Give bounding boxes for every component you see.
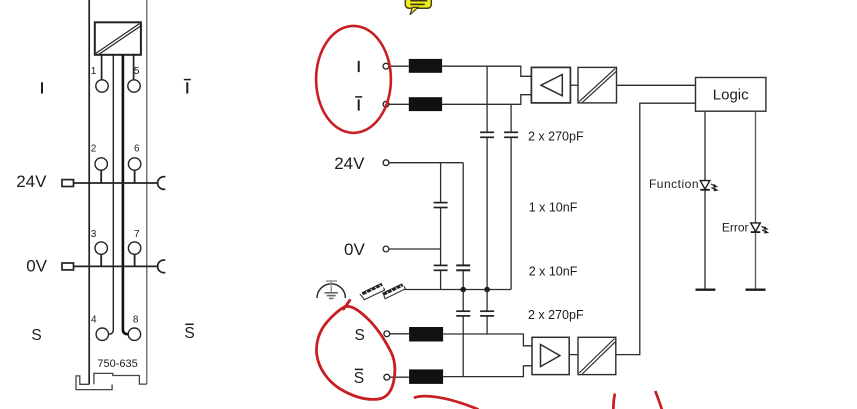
wire: terminal I-bar to filter	[389, 103, 409, 105]
wire: C4 to earth rail	[440, 270, 442, 289]
wire: internal bus thin (head to pin 4)	[109, 55, 114, 334]
terminal 24V field clamp (square)	[62, 180, 74, 187]
module foot left hook	[76, 376, 112, 390]
pin 3	[95, 242, 107, 266]
terminator bar under error LED	[746, 289, 766, 291]
terminal 0V field clamp (square)	[62, 263, 74, 270]
capacitor C1 plates	[480, 132, 494, 137]
svg-text:2 x 10nF: 2 x 10nF	[529, 265, 578, 279]
annotation: yellow speech bubble	[405, 0, 431, 15]
junction on earth rail (x=487)	[484, 287, 490, 293]
logic block U1	[696, 78, 766, 112]
wire: C7 down to S line	[486, 316, 488, 334]
svg-text:8: 8	[133, 314, 139, 325]
earth symbol	[317, 280, 345, 298]
svg-text:5: 5	[134, 66, 140, 77]
svg-text:S: S	[31, 327, 41, 344]
svg-text:S: S	[355, 327, 365, 344]
galvanic isolator (output channel)	[578, 337, 616, 374]
capacitor C2 270pF (I-bar to rail) top segment	[510, 104, 512, 132]
label S-bar (module right)	[184, 324, 194, 342]
annotation: red stroke bottom right B	[655, 391, 662, 409]
svg-text:Error: Error	[722, 220, 749, 234]
label I (module left)	[41, 82, 43, 93]
wire: module left border	[88, 0, 90, 384]
pin 5	[128, 80, 140, 92]
terminal 0V cage clamp (arc)	[158, 260, 166, 273]
wire: C2 to earth rail	[510, 137, 512, 289]
filter choke on I (black box)	[409, 59, 442, 73]
svg-text:2 x 270pF: 2 x 270pF	[528, 129, 584, 143]
pin 8	[128, 328, 140, 340]
isolator block (module head)	[95, 22, 141, 55]
svg-text:2 x 270pF: 2 x 270pF	[528, 308, 584, 322]
terminal 24V cage clamp (arc)	[158, 177, 166, 190]
terminal I (open circle)	[383, 63, 389, 69]
wire: I line to receiver	[442, 66, 531, 76]
terminal S	[384, 331, 390, 337]
label I-bar (module right)	[184, 80, 191, 94]
capacitor C1 270pF (I to rail) top segment	[486, 66, 488, 132]
capacitor C7 270pF plates (rail to S)	[480, 311, 494, 316]
terminal 24V	[383, 160, 389, 166]
svg-text:S: S	[354, 370, 364, 387]
svg-text:S: S	[184, 325, 194, 342]
svg-text:6: 6	[134, 143, 140, 154]
DIN rail symbol	[360, 283, 406, 300]
svg-text:4: 4	[91, 314, 97, 325]
capacitor C2 plates	[504, 132, 518, 137]
wire: terminal S-bar to filter	[390, 376, 409, 378]
LED Error	[751, 223, 768, 233]
wire: terminal S to filter	[390, 333, 409, 335]
svg-text:Logic: Logic	[713, 87, 749, 104]
annotation: red loop around S / S-bar	[316, 299, 394, 399]
wire: I-bar line to receiver	[442, 95, 531, 105]
node S-bar label	[354, 369, 364, 387]
wire: C6 down to S-bar line	[462, 316, 464, 377]
annotation: red ellipse around I / I-bar	[316, 26, 391, 133]
wire: 0V terminal to node	[389, 248, 441, 250]
wire: pin1 stem from head	[101, 55, 103, 80]
svg-text:1: 1	[91, 66, 97, 77]
filter choke on S (black box)	[409, 327, 443, 342]
svg-text:7: 7	[134, 229, 140, 240]
wire: C5 to earth rail	[462, 270, 464, 289]
terminal I-bar	[383, 101, 389, 107]
galvanic isolator (input channel)	[578, 67, 617, 103]
wire: driver to isolator	[569, 354, 578, 356]
terminator bar under function LED	[696, 289, 716, 291]
svg-text:24V: 24V	[334, 154, 365, 173]
wire: C1 to earth rail	[486, 137, 488, 289]
svg-text:1 x 10nF: 1 x 10nF	[529, 201, 578, 215]
svg-text:24V: 24V	[16, 172, 47, 191]
wire: module right border	[146, 0, 148, 384]
junction on earth rail (x=463)	[460, 287, 466, 293]
capacitor C5 10nF plates (24V to rail)	[456, 265, 470, 270]
filter choke on S-bar (black box)	[409, 369, 443, 384]
LED Function	[700, 181, 717, 191]
pin 6	[128, 158, 140, 183]
terminal 0V	[383, 246, 389, 252]
filter choke on I-bar (black box)	[409, 97, 442, 111]
wire: logic to function LED	[704, 111, 706, 290]
pin 2	[95, 158, 107, 183]
annotation: red swoosh bottom center	[414, 396, 479, 409]
svg-text:0V: 0V	[26, 257, 47, 276]
wire: terminal I to filter	[389, 65, 409, 67]
wire: 24V terminal to caps	[389, 162, 463, 164]
wire: 24V drop to C3	[440, 163, 442, 203]
pin 7	[128, 242, 140, 266]
node I label	[358, 61, 360, 72]
driver amplifier (triangle box, output side)	[532, 337, 569, 374]
capacitor C4 10nF plates (0V to rail)	[434, 265, 448, 270]
wire: receiver to isolator	[570, 84, 578, 86]
receiver amplifier (triangle box, input side)	[531, 67, 570, 103]
wire: isolator to logic	[617, 84, 696, 86]
wire: 24V rail across module	[74, 182, 159, 184]
wire: rail down to C7	[486, 290, 488, 312]
wire: logic to error LED	[755, 111, 757, 290]
wire: C3 to 0V node and down to C4	[440, 208, 442, 266]
wire: S line to driver	[443, 334, 532, 346]
terminal S-bar	[384, 374, 390, 380]
wire: 0V rail across module	[74, 265, 159, 267]
pin 4	[96, 328, 108, 340]
wire: 24V drop to C5	[462, 163, 464, 266]
pin 1	[96, 80, 108, 92]
wire: earth rail	[404, 289, 511, 291]
wire: pin5 stem from head	[133, 55, 135, 80]
svg-text:2: 2	[91, 143, 97, 154]
svg-text:750-635: 750-635	[97, 358, 137, 370]
node I-bar label	[355, 97, 362, 111]
capacitor C6 270pF plates (rail to S-bar)	[456, 311, 470, 316]
wire: S-bar line to driver	[443, 366, 532, 377]
annotation: red stroke bottom right A	[613, 394, 615, 409]
wire: output isolator up to logic	[616, 103, 696, 354]
capacitor C3 10nF plates (24V to 0V)	[434, 203, 448, 208]
module foot tongue	[94, 373, 147, 384]
svg-text:3: 3	[91, 229, 97, 240]
wire: internal bus thick (head to pin 8)	[123, 55, 128, 334]
svg-text:Function: Function	[649, 177, 699, 191]
svg-text:0V: 0V	[344, 240, 365, 259]
wire: rail down to C6	[462, 290, 464, 312]
